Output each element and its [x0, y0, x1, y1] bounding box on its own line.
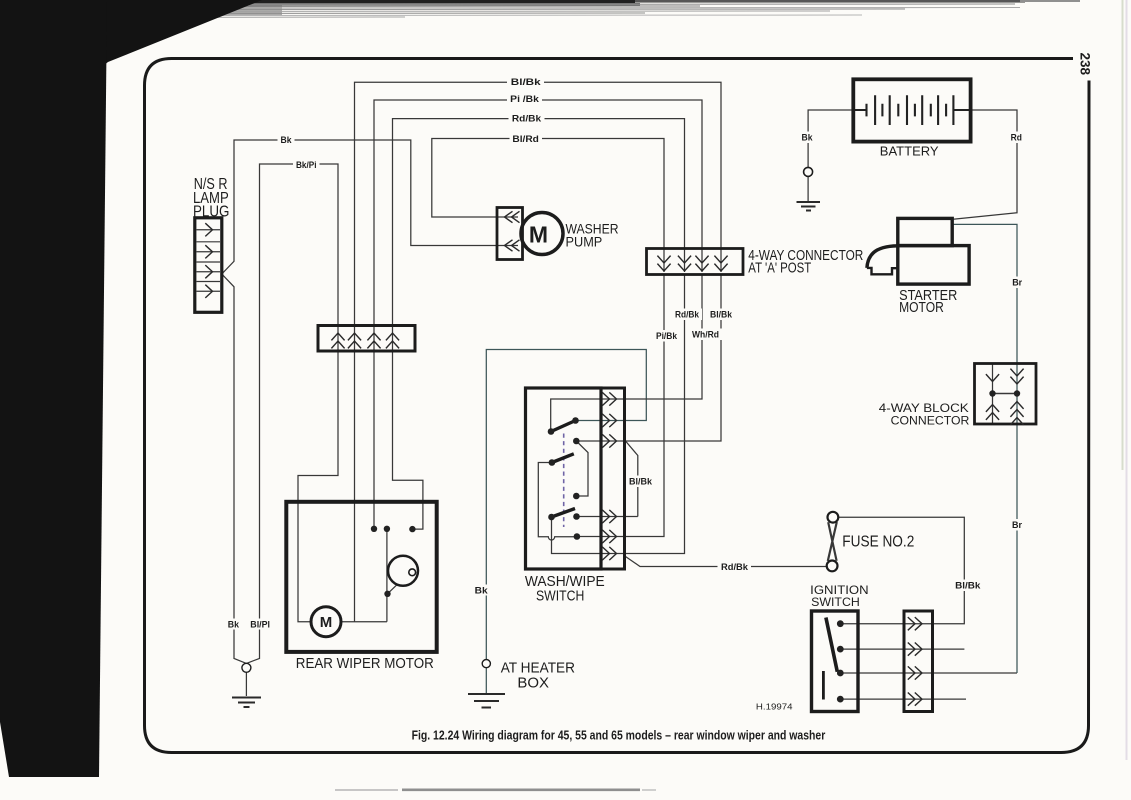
svg-text:Bk: Bk — [281, 135, 293, 146]
svg-text:REAR WIPER MOTOR: REAR WIPER MOTOR — [296, 655, 434, 672]
svg-text:Bl/Pl: Bl/Pl — [250, 620, 270, 631]
svg-text:Bl/Bk: Bl/Bk — [511, 77, 542, 88]
svg-text:Bl/Bk: Bl/Bk — [955, 581, 981, 592]
svg-text:Rd: Rd — [1011, 133, 1022, 144]
svg-text:M: M — [320, 614, 333, 631]
svg-text:238: 238 — [1078, 53, 1093, 76]
svg-text:PLUG: PLUG — [193, 204, 229, 221]
svg-text:Bk: Bk — [475, 586, 489, 597]
svg-text:Pi/Bk: Pi/Bk — [656, 331, 678, 342]
svg-text:Bl/Bk: Bl/Bk — [629, 477, 653, 488]
svg-text:Rd/Bk: Rd/Bk — [721, 562, 749, 573]
svg-text:MOTOR: MOTOR — [899, 300, 944, 316]
svg-text:M: M — [529, 222, 548, 248]
svg-text:CONNECTOR: CONNECTOR — [891, 413, 970, 427]
svg-text:Fig. 12.24 Wiring diagram for: Fig. 12.24 Wiring diagram for 45, 55 and… — [412, 729, 826, 743]
svg-text:Bl/Bk: Bl/Bk — [710, 310, 733, 321]
svg-text:Rd/Bk: Rd/Bk — [512, 113, 542, 124]
svg-text:SWITCH: SWITCH — [536, 588, 584, 605]
svg-text:Wh/Rd: Wh/Rd — [692, 330, 719, 341]
svg-text:Rd/Bk: Rd/Bk — [675, 310, 700, 321]
svg-text:AT 'A' POST: AT 'A' POST — [748, 259, 811, 276]
svg-text:BOX: BOX — [517, 675, 549, 692]
svg-text:Bk: Bk — [228, 620, 240, 631]
svg-text:Bl/Rd: Bl/Rd — [512, 134, 539, 145]
svg-text:H.19974: H.19974 — [756, 702, 793, 712]
svg-text:FUSE NO.2: FUSE NO.2 — [842, 533, 914, 550]
svg-text:PUMP: PUMP — [566, 234, 603, 250]
svg-text:Br: Br — [1012, 520, 1022, 531]
svg-text:SWITCH: SWITCH — [811, 595, 860, 609]
svg-text:Pi /Bk: Pi /Bk — [510, 94, 539, 105]
svg-text:Br: Br — [1012, 278, 1022, 289]
svg-text:Bk/Pi: Bk/Pi — [296, 160, 317, 171]
svg-text:BATTERY: BATTERY — [880, 144, 939, 159]
svg-text:Bk: Bk — [802, 133, 814, 144]
